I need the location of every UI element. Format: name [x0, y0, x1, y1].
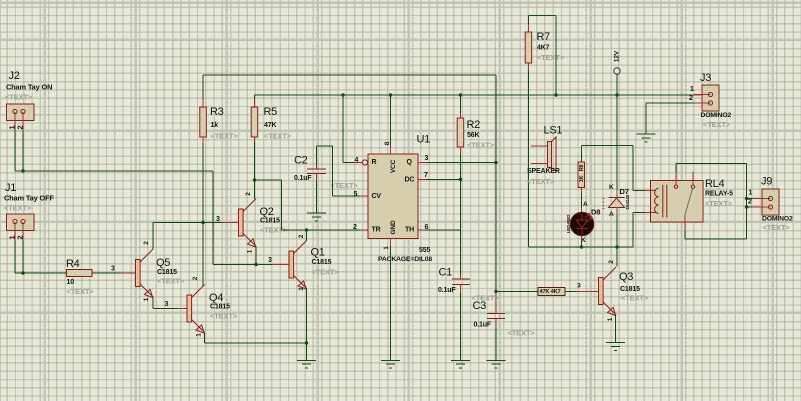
svg-text:<TEXT>: <TEXT>: [157, 276, 185, 285]
svg-text:J1: J1: [5, 182, 16, 194]
svg-text:J2: J2: [9, 70, 20, 82]
svg-text:3: 3: [216, 216, 220, 223]
connector J3 body: [702, 85, 719, 111]
wire R5 top stub to rail: [254, 95, 256, 107]
svg-text:<TEXT>: <TEXT>: [763, 223, 791, 232]
svg-text:<TEXT>: <TEXT>: [312, 267, 340, 276]
wire +12V rail (y=95): [255, 94, 695, 96]
wire Q1 collector to TR line: [305, 228, 308, 240]
svg-text:C3: C3: [473, 300, 487, 312]
resistor R5 47K: [251, 107, 258, 137]
svg-text:R5: R5: [264, 106, 278, 118]
wire Q3 collector from bottom net: [616, 247, 618, 267]
wire J9 pins to relay loop column: [745, 197, 762, 209]
svg-text:DOMINO2: DOMINO2: [701, 112, 732, 119]
svg-text:2: 2: [143, 241, 150, 245]
svg-text:<TEXT>: <TEXT>: [331, 181, 359, 190]
wire rail red stub into J3 pin1: [694, 94, 702, 96]
svg-text:D7: D7: [620, 187, 629, 196]
svg-text:4K7: 4K7: [537, 45, 550, 52]
svg-text:C2: C2: [294, 155, 308, 167]
Q5 pin numbers: [143, 241, 150, 302]
svg-text:Cham Tay OFF: Cham Tay OFF: [4, 193, 54, 202]
svg-text:Q4: Q4: [209, 292, 223, 304]
svg-text:CV: CV: [372, 193, 382, 200]
U1 pin names: [372, 159, 415, 235]
svg-text:3: 3: [268, 257, 272, 264]
ground (C3): [487, 360, 506, 368]
svg-text:1N4148: 1N4148: [625, 195, 630, 210]
transistor Q5: [136, 249, 154, 298]
U1 reset bubble and R pin wire to rail: [341, 93, 367, 165]
C3 labels: [472, 293, 500, 328]
svg-text:<TEXT>: <TEXT>: [621, 293, 649, 302]
J1 labels: [4, 182, 54, 212]
R3 labels: [210, 106, 238, 140]
svg-text:LS1: LS1: [544, 125, 563, 137]
Q1 labels: [268, 247, 339, 277]
R5 labels: [264, 106, 292, 140]
svg-text:<TEXT>: <TEXT>: [67, 287, 95, 296]
wire C2 top to CV pin route: [317, 146, 369, 196]
svg-text:56K: 56K: [467, 132, 479, 139]
J2 labels: [5, 70, 52, 101]
svg-text:TR: TR: [372, 227, 381, 234]
svg-text:C1815: C1815: [312, 259, 332, 266]
svg-text:2: 2: [689, 95, 693, 102]
svg-text:<TEXT>: <TEXT>: [705, 199, 733, 208]
svg-text:A: A: [583, 201, 588, 208]
svg-text:47K: 47K: [264, 122, 276, 129]
svg-text:RL4: RL4: [705, 178, 724, 190]
Q5 labels: [156, 257, 185, 285]
svg-text:Q: Q: [407, 159, 413, 166]
svg-text:Cham Tay ON: Cham Tay ON: [6, 82, 52, 91]
svg-text:2: 2: [608, 260, 615, 264]
svg-text:C1815: C1815: [210, 304, 230, 311]
wire R7 bottom / speaker column down to bottom net: [528, 63, 530, 247]
wire Q2 emitter down to Q1 base line: [254, 247, 257, 267]
svg-text:R8: R8: [579, 165, 585, 172]
power +12V terminal: [613, 50, 620, 97]
wire relay coil top feed: [633, 146, 651, 191]
ground (C2): [307, 213, 326, 221]
connector J1 body: [7, 214, 35, 231]
svg-text:1: 1: [383, 246, 390, 250]
capacitor C2 0.1uF: [307, 169, 326, 174]
svg-text:555: 555: [419, 247, 430, 254]
svg-text:C1815: C1815: [157, 269, 177, 276]
transistor Q2: [239, 199, 257, 248]
resistor R4 10: [67, 270, 93, 277]
svg-text:<TEXT>: <TEXT>: [508, 328, 536, 337]
svg-text:SPEAKER: SPEAKER: [527, 168, 560, 175]
C2 labels: [294, 155, 358, 190]
transistor Q4: [187, 285, 205, 334]
svg-text:<TEXT>: <TEXT>: [211, 131, 239, 140]
svg-text:1: 1: [246, 249, 253, 253]
wire +12V column down to diode D7: [616, 95, 618, 190]
relay RL4 RELAY-5: [651, 172, 704, 232]
capacitor C1 0.1uF: [452, 275, 470, 294]
svg-text:<TEXT>: <TEXT>: [467, 140, 495, 149]
U1 pin numbers: [353, 141, 429, 250]
wire R2 column: rail to TH junction to C1: [459, 93, 462, 274]
svg-text:K: K: [609, 184, 614, 191]
U1 TH pin 6 wire to R2 column: [418, 229, 461, 231]
Q1 pin numbers: [298, 234, 305, 291]
wire relay switch loop to J9 column: [676, 164, 747, 240]
resistor R3 1k: [200, 107, 207, 137]
LS1 labels: [527, 125, 562, 186]
wire R6 to Q3 base: [565, 282, 599, 291]
U1 GND pin 1 wire to ground: [390, 239, 392, 361]
ground (C1): [451, 360, 470, 368]
svg-text:Q3: Q3: [619, 271, 633, 283]
op-amp U1 555 timer body: [368, 154, 418, 239]
svg-text:5: 5: [354, 191, 358, 198]
wire upper rail R3-top to output column (y=75): [203, 74, 496, 76]
svg-text:3: 3: [111, 266, 115, 273]
svg-text:1: 1: [749, 190, 753, 197]
svg-text:2: 2: [192, 276, 199, 280]
D7 labels: [609, 184, 629, 218]
svg-text:0.1uF: 0.1uF: [438, 287, 456, 294]
svg-text:TH: TH: [405, 227, 414, 234]
R7 labels: [537, 31, 565, 62]
svg-text:12V: 12V: [613, 50, 620, 62]
svg-text:R: R: [372, 159, 377, 166]
connector J9 body: [762, 189, 779, 215]
wire base line Q5C-R3-Q2 base (y=222.5): [153, 221, 239, 224]
LED D8: [566, 212, 594, 236]
svg-text:7: 7: [424, 172, 428, 179]
RL4 labels: [705, 178, 733, 208]
svg-text:1: 1: [298, 287, 305, 291]
svg-text:8: 8: [384, 141, 391, 145]
transistor Q1: [289, 241, 307, 290]
svg-text:J3: J3: [700, 72, 711, 84]
D8 labels: [581, 207, 600, 244]
ground (Q3 emitter): [606, 343, 625, 351]
wire output node down to C3 and Q3 base (node 3): [494, 290, 538, 314]
svg-text:C1815: C1815: [620, 286, 640, 293]
J9 labels: [748, 176, 793, 232]
speaker LS1: [531, 137, 556, 172]
svg-text:2: 2: [353, 224, 357, 231]
svg-text:1: 1: [690, 86, 694, 93]
svg-text:3: 3: [165, 301, 169, 308]
svg-text:1K: 1K: [579, 175, 585, 182]
svg-text:<TEXT>: <TEXT>: [527, 177, 555, 186]
svg-text:R4: R4: [66, 258, 80, 270]
Q3 pin numbers: [607, 260, 615, 322]
ground (J3 pin2): [637, 134, 656, 142]
svg-text:1: 1: [143, 297, 150, 301]
svg-text:3: 3: [577, 282, 581, 289]
svg-text:47K 4K7: 47K 4K7: [540, 289, 561, 295]
U1 DC pin 7 wire to R2 column: [418, 178, 462, 181]
wire Q1 base red stub: [272, 264, 289, 266]
U1 VCC pin 8 wire to rail: [389, 93, 392, 154]
R4 labels: [66, 258, 94, 296]
svg-text:R3: R3: [210, 106, 224, 118]
Q3 labels: [619, 271, 649, 302]
svg-text:2: 2: [748, 199, 752, 206]
Q4 pin numbers: [192, 276, 203, 337]
svg-text:C1: C1: [439, 267, 453, 279]
transistor Q3: [599, 267, 617, 316]
Q4 labels: [209, 292, 238, 320]
wire R5 bottom to Q2 collector and TR route: [253, 137, 368, 230]
svg-text:DC: DC: [405, 177, 415, 184]
svg-text:U1: U1: [417, 134, 431, 146]
ground (Q1/Q4 emitters): [297, 360, 316, 368]
svg-text:GND: GND: [390, 220, 397, 234]
diode D7 1N4148: [603, 190, 630, 215]
J1 pin numbers 1 2: [8, 235, 25, 239]
svg-text:<TEXT>: <TEXT>: [5, 92, 33, 101]
U1 Q pin 3 wire right then down (output column): [418, 75, 498, 292]
svg-text:C1815: C1815: [260, 218, 280, 225]
svg-text:0.1uF: 0.1uF: [474, 322, 492, 329]
wire R4 to Q5 base, pin 3 label: [92, 266, 136, 274]
svg-text:<TEXT>: <TEXT>: [210, 311, 238, 320]
svg-text:2: 2: [245, 192, 252, 196]
J2 pin numbers 1 2: [8, 125, 25, 129]
wire LED bottom to bottom net: [581, 236, 583, 248]
svg-text:DOMINO2: DOMINO2: [762, 215, 793, 222]
wire 1K top to relay coil top line: [582, 146, 634, 163]
wire R7 top loop to rail at x=556: [529, 16, 558, 97]
wire Q3 emitter to ground: [615, 315, 617, 343]
svg-text:3: 3: [425, 155, 429, 162]
wire J1 pins down to R4: [15, 231, 67, 275]
wire D7 anode down to bottom net: [616, 215, 618, 247]
wire J2 node down to Q1 base line: [213, 171, 272, 265]
C1 labels: [438, 267, 456, 294]
J3 labels: [689, 72, 732, 129]
wire C1 to ground: [460, 293, 462, 360]
svg-text:D8: D8: [591, 207, 600, 216]
svg-text:10: 10: [67, 279, 75, 286]
resistor R2 56K: [457, 118, 464, 147]
svg-text:<TEXT>: <TEXT>: [537, 53, 565, 62]
svg-text:1: 1: [607, 317, 614, 321]
wire J2 pins down and right to node at x=213: [15, 121, 213, 173]
svg-text:Q5: Q5: [156, 257, 170, 269]
wire J3 pin stubs: [694, 95, 702, 104]
wire J3 pin2 to ground: [646, 103, 694, 134]
svg-text:PACKAGE=DIL08: PACKAGE=DIL08: [378, 256, 432, 263]
svg-text:J9: J9: [761, 176, 772, 188]
wire Q4 emitter to ground run: [205, 333, 307, 344]
wire Q5 emitter down and right to Q4 base: [153, 297, 187, 309]
ground (U1 GND): [381, 360, 400, 368]
svg-text:Q2: Q2: [260, 206, 274, 218]
connector J2 body: [7, 104, 35, 121]
resistor R8 1K (LED series): [578, 162, 585, 188]
svg-text:2: 2: [298, 234, 305, 238]
Q2 pin numbers: [245, 192, 254, 254]
wire C3 to ground: [495, 328, 497, 360]
wire 1K bottom to LED: [582, 188, 589, 213]
wire R3 column: top stub, down through base junction to Q4 collector: [202, 75, 204, 287]
resistor R6 4K7 (Q3 base): [538, 288, 565, 296]
wire Q5 collector up to base-junction line: [152, 223, 154, 250]
svg-text:R2: R2: [467, 119, 481, 131]
wire Q1 emitter to ground: [305, 289, 308, 361]
svg-text:0.1uF: 0.1uF: [294, 175, 312, 182]
wire C2 bottom to ground: [316, 174, 318, 214]
svg-text:A: A: [609, 211, 614, 218]
resistor R7 4K7: [525, 32, 532, 63]
svg-text:<TEXT>: <TEXT>: [264, 131, 292, 140]
svg-text:<TEXT>: <TEXT>: [4, 203, 32, 212]
svg-text:1k: 1k: [211, 122, 219, 129]
wire bottom net y=247 (speaker/LED/diode/Q3C/relay coil): [529, 245, 634, 248]
wire relay coil bottom feed: [633, 213, 651, 248]
capacitor C3 0.1uF: [487, 314, 505, 329]
svg-text:1: 1: [195, 333, 202, 337]
svg-text:<TEXT>: <TEXT>: [703, 120, 731, 129]
svg-text:RELAY-5: RELAY-5: [705, 191, 733, 198]
U1 labels: [378, 134, 432, 263]
R2 labels: [467, 119, 495, 149]
svg-text:VCC: VCC: [390, 159, 397, 173]
svg-text:Q1: Q1: [311, 247, 325, 259]
Q2 labels: [216, 206, 288, 234]
svg-text:LED-RED: LED-RED: [566, 215, 571, 233]
svg-text:R7: R7: [537, 31, 551, 43]
